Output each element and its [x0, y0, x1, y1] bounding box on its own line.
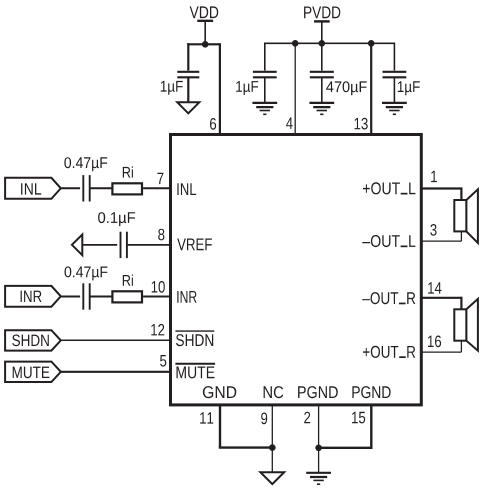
pin label VREF: [177, 239, 212, 251]
value label 1uF (C2): [236, 81, 258, 95]
pin number 6: [210, 118, 216, 130]
wire Ri1 to pin 7: [143, 187, 170, 189]
power ground below C2: [252, 102, 277, 104]
pin label PGND (pin15): [352, 386, 390, 398]
speaker SPK2 driver: [454, 309, 466, 340]
wire rail to C3: [321, 43, 323, 70]
node VDD junction: [202, 41, 209, 48]
pin number 13: [355, 118, 368, 130]
pin number 14: [428, 282, 441, 293]
pin number 11: [200, 412, 213, 423]
ground (signal) bottom: [260, 472, 284, 484]
pin label +OUT_R: [363, 346, 415, 358]
wire pin11 to pin9 junction: [219, 446, 272, 448]
node rail-pin4: [292, 40, 299, 47]
wire C4 to ground: [393, 77, 395, 103]
wire Ri2 to pin 10: [143, 296, 170, 298]
wire rail to pin 13: [370, 43, 372, 136]
wire MUTE flag to pin 5: [61, 371, 171, 373]
wire VDD junction to pin 6: [205, 43, 220, 45]
pin number 2: [304, 412, 310, 424]
speaker SPK1 driver: [454, 200, 466, 231]
resistor Ri1: [112, 183, 142, 194]
capacitor C5 0.47uF (INL coupling): [82, 175, 84, 201]
wire rail to C2: [264, 43, 266, 71]
input flag INR: [5, 286, 61, 307]
pin number 4: [286, 118, 293, 129]
wire pin 14 to speaker R: [421, 297, 461, 299]
speaker SPK1 cone: [466, 189, 478, 243]
node rail-pin13: [368, 40, 375, 47]
VDD supply bar: [197, 20, 213, 22]
capacitor C2 1uF (PVDD bypass): [253, 71, 277, 73]
ground (signal) below C1: [177, 102, 199, 113]
power ground below C3: [309, 102, 334, 104]
pin label -OUT_L: [362, 235, 415, 247]
capacitor C6 0.1uF (VREF): [120, 232, 122, 258]
value label Ri (Ri1): [123, 166, 133, 177]
value label Ri (Ri2): [123, 275, 133, 286]
wire C1 to ground: [187, 77, 189, 102]
wire INR flag to C7: [61, 296, 80, 298]
wire pin 3 to speaker L: [421, 240, 461, 242]
input flag INL: [5, 178, 61, 199]
wire pin 15 down: [370, 405, 372, 448]
node GND junction: [269, 444, 276, 451]
pin label SHDN with overline: [176, 334, 213, 346]
node rail-C3: [319, 40, 326, 47]
pin number 5: [160, 355, 166, 367]
op-amp U1 TPA6021A4 body: [171, 135, 422, 405]
wire junction to signal ground: [271, 448, 273, 473]
wire C2 to ground: [264, 77, 266, 103]
wire arrow to C6: [82, 244, 117, 246]
wire pin 11 down: [219, 405, 221, 448]
wire pin 16 to speaker R: [421, 351, 461, 353]
wire junction to power ground: [318, 448, 320, 473]
pin number 3: [430, 224, 436, 236]
pin label PGND (pin2): [298, 386, 338, 398]
pin number 16: [428, 336, 441, 348]
pin label NC: [264, 386, 284, 398]
value label 470uF (C3): [326, 81, 367, 95]
wire C7 to Ri2: [90, 296, 112, 298]
wire pin 1 to speaker L: [421, 187, 461, 189]
pin label GND: [203, 386, 236, 398]
wire C6 to pin 8: [127, 244, 171, 246]
wire INL flag to C5: [61, 187, 80, 189]
wire rail to C4: [393, 43, 395, 71]
value label 1uF (C4): [398, 81, 420, 95]
pin number 9: [261, 413, 267, 425]
pin number 7: [157, 173, 163, 184]
wire VDD junction to C1: [187, 43, 205, 45]
value label 0.47uF (C5): [64, 157, 107, 171]
PVDD supply bar: [314, 20, 330, 22]
capacitor C1 1uF (VDD bypass): [177, 71, 199, 73]
pin number 12: [151, 324, 164, 336]
wire C3 to ground: [321, 77, 323, 103]
pin label +OUT_L: [363, 182, 415, 194]
value label 1uF (C1): [161, 81, 183, 95]
input flag SHDN: [5, 330, 61, 350]
capacitor C3 470uF (bulk): [310, 71, 334, 73]
value label 0.1uF (C6): [98, 212, 135, 226]
wire pin 9 down: [271, 405, 273, 448]
net label PVDD: [304, 7, 340, 19]
pin number 1: [431, 171, 437, 182]
wire PVDD rail: [265, 42, 395, 44]
power ground bottom: [306, 472, 331, 474]
capacitor C4 1uF (PVDD bypass): [383, 71, 407, 73]
pin number 10: [152, 281, 165, 293]
capacitor C7 0.47uF (INR coupling): [82, 283, 84, 309]
pin label INL: [177, 183, 196, 195]
input flag MUTE: [5, 362, 61, 382]
wire pin15 to pin2 junction: [319, 447, 373, 449]
resistor Ri2: [112, 291, 142, 302]
wire pin 2 down: [318, 405, 320, 448]
wire VDD bar to junction: [204, 21, 206, 45]
wire rail to pin 4: [294, 43, 296, 136]
value label 0.47uF (C7): [65, 266, 108, 280]
pin number 8: [158, 229, 164, 241]
net label VDD: [190, 6, 219, 18]
speaker SPK2 cone: [466, 299, 478, 351]
node VREF stub arrow: [72, 235, 82, 256]
wire SHDN flag to pin 12: [61, 339, 171, 341]
wire PVDD bar to rail: [321, 21, 323, 43]
wire C5 to Ri1: [90, 187, 112, 189]
node PGND junction: [315, 445, 322, 452]
pin number 15: [352, 412, 365, 424]
power ground below C4: [382, 102, 407, 104]
pin label INR: [177, 291, 196, 303]
pin label MUTE with overline: [177, 367, 215, 379]
pin label -OUT_R: [362, 292, 415, 304]
